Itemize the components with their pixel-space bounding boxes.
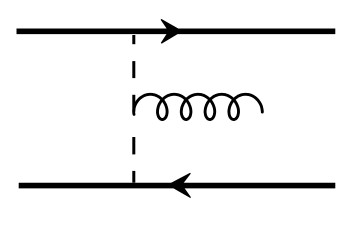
- dashed propagator (lower segment): [132, 137, 135, 154]
- dashed propagator (upper segment): [132, 35, 135, 44]
- arrowhead on bottom line: [169, 174, 191, 198]
- arrowhead on top line: [161, 20, 181, 43]
- fermion line bottom (antiquark, arrow left): [19, 183, 336, 189]
- gluon coil: [134, 94, 263, 119]
- fermion line top (quark, arrow right): [17, 28, 336, 34]
